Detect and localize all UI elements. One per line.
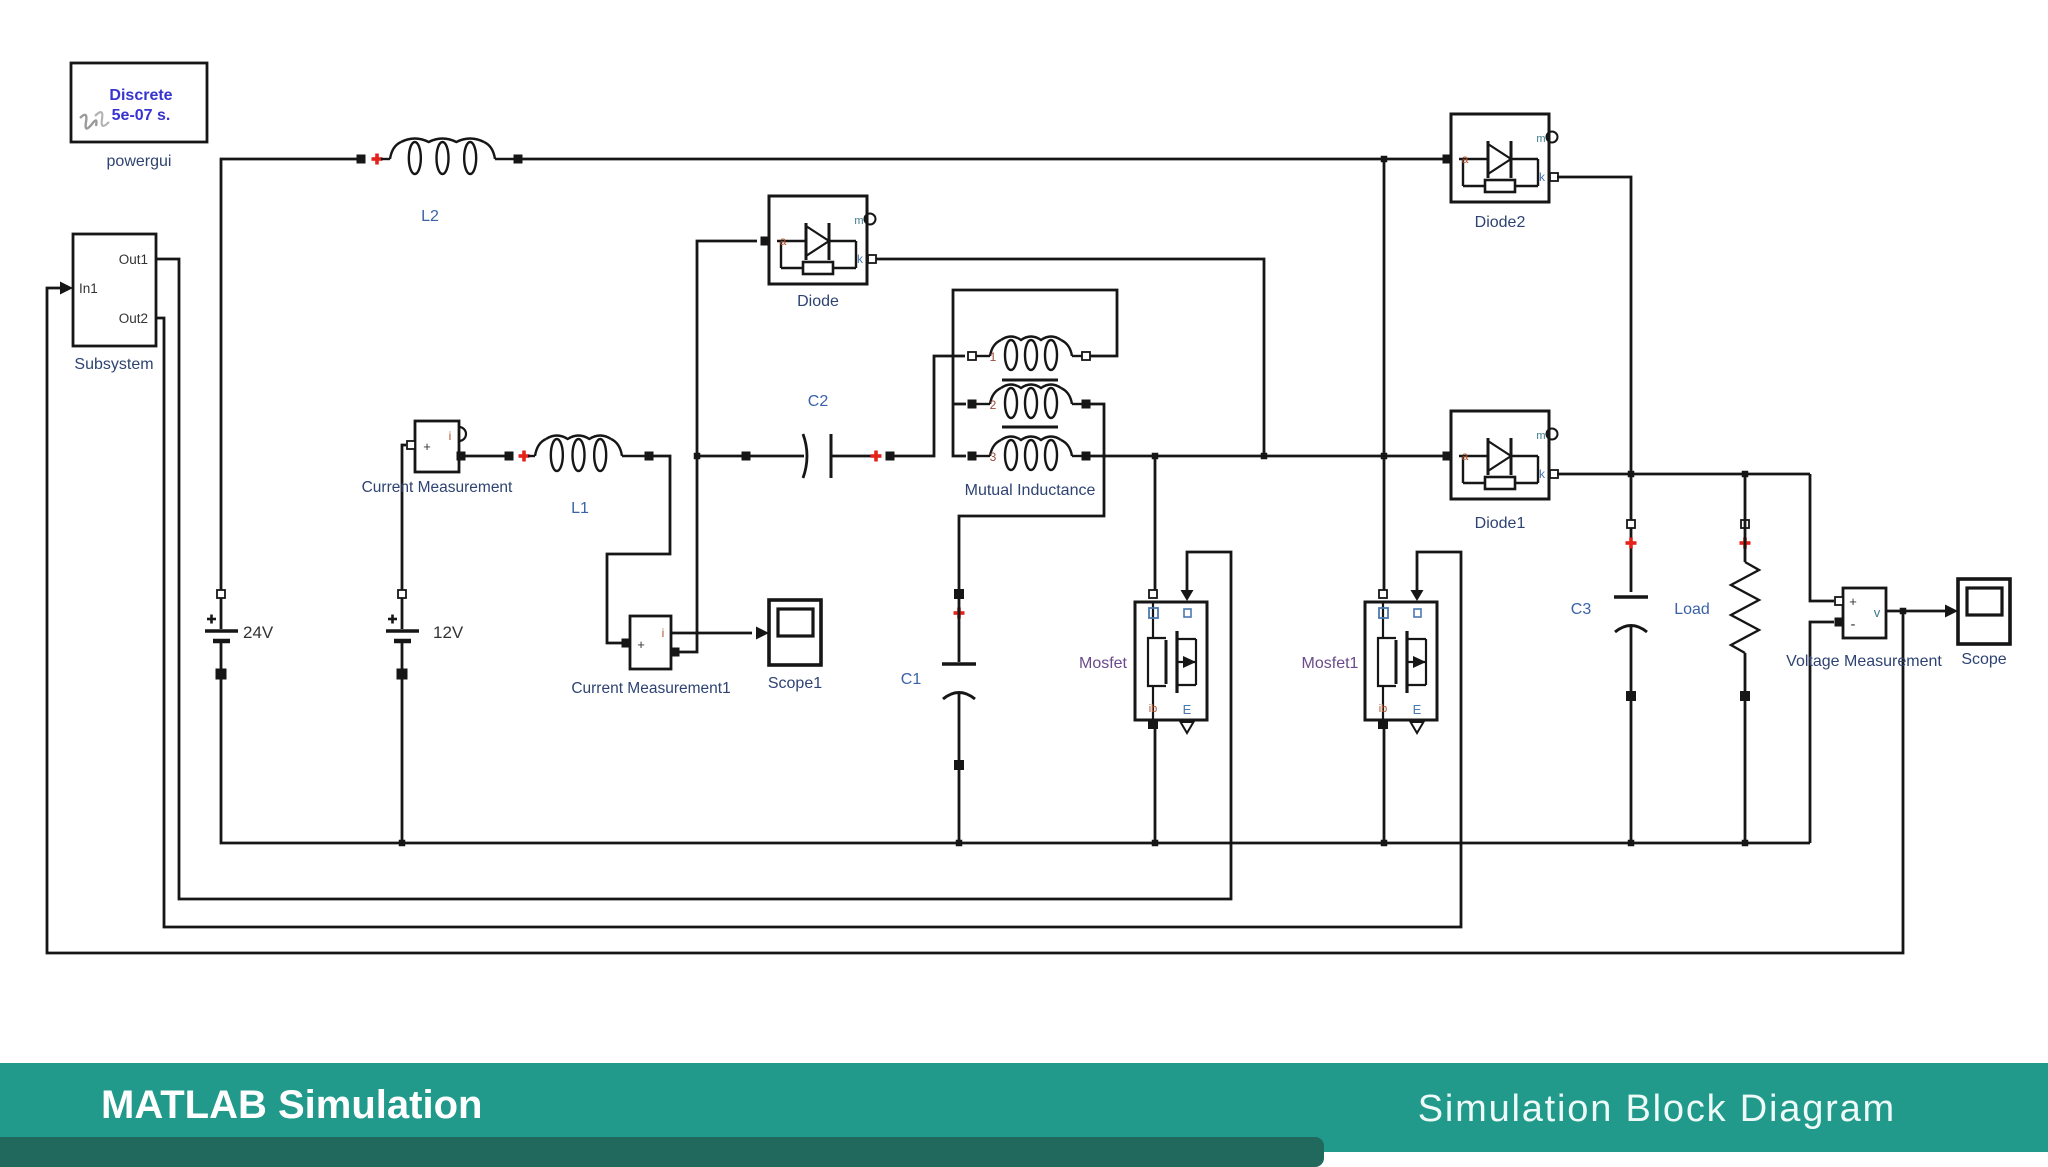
svg-text:Mosfet1: Mosfet1 — [1302, 655, 1359, 672]
wire C2 right — [831, 455, 871, 458]
L2 right terminal — [514, 155, 523, 164]
current measurement1 block — [622, 616, 680, 669]
L2 left terminal — [357, 155, 366, 164]
mutual inductance label — [965, 482, 1096, 499]
svg-text:a: a — [1462, 449, 1469, 463]
wire into C2 — [750, 455, 804, 458]
C2 red plus — [871, 451, 882, 462]
arrow into In1 — [60, 282, 73, 295]
capacitor C2 plates — [803, 434, 831, 478]
current measurement label — [362, 479, 513, 496]
scope block Scope — [1958, 579, 2010, 668]
svg-text:Diode1: Diode1 — [1475, 515, 1526, 532]
current measurement block — [407, 421, 466, 472]
12V port square — [398, 590, 406, 598]
junction top net / Mosfet1 drain — [1381, 156, 1388, 163]
svg-text:C3: C3 — [1571, 601, 1592, 618]
svg-text:24V: 24V — [243, 623, 274, 642]
svg-text:i: i — [449, 429, 452, 443]
svg-text:Voltage Measurement: Voltage Measurement — [1786, 653, 1942, 670]
svg-text:+: + — [1849, 594, 1857, 609]
Load port square — [1741, 520, 1749, 528]
wire winding2 left stub — [953, 403, 966, 406]
wire C2 left — [697, 455, 742, 458]
junction 12V/bus — [399, 840, 406, 847]
wire L1 to current measurement1 — [607, 456, 670, 643]
C1 label — [901, 671, 922, 688]
svg-text:L2: L2 — [421, 208, 439, 225]
powergui label — [107, 153, 172, 170]
junction C3/bus — [1628, 840, 1635, 847]
svg-text:1: 1 — [990, 350, 997, 364]
wire 12V to current measurement — [402, 445, 406, 590]
junction diode anode / C2 — [694, 453, 701, 460]
svg-text:Mosfet: Mosfet — [1079, 655, 1128, 672]
subsystem block — [73, 234, 156, 346]
svg-text:+: + — [423, 439, 431, 454]
svg-text:-: - — [1851, 616, 1856, 633]
L1 right terminal — [645, 452, 654, 461]
subsystem label — [74, 356, 153, 373]
Load wire marker — [1740, 691, 1750, 701]
wire CM output to L1 — [464, 455, 505, 458]
inductor L2 coil — [381, 139, 514, 175]
mutual inductance winding1 — [968, 337, 1090, 371]
svg-text:Scope1: Scope1 — [768, 675, 822, 692]
svg-text:k: k — [857, 252, 864, 266]
svg-text:Diode2: Diode2 — [1475, 214, 1526, 231]
diode block Diode1 — [1443, 411, 1559, 532]
C2 right port square — [886, 452, 895, 461]
mutual inductance core bar2 — [1002, 426, 1058, 429]
svg-text:3: 3 — [990, 450, 997, 464]
wire In1 feedback — [47, 288, 1903, 953]
arrow into Scope — [1945, 605, 1958, 618]
mutual inductance winding2 — [968, 385, 1091, 419]
L1 label — [571, 500, 589, 517]
mutual inductance winding3 — [968, 437, 1091, 471]
24V wire marker — [216, 669, 227, 680]
mosfet block Mosfet — [1135, 590, 1207, 733]
wire Diode k to center node — [876, 259, 1264, 456]
wire winding1 right loop to winding2/3 left — [953, 290, 1117, 456]
svg-text:E: E — [1183, 702, 1192, 717]
L2 red plus — [372, 154, 383, 165]
Load red plus — [1740, 538, 1751, 549]
C1 port square — [954, 589, 964, 599]
scope block Scope1 — [768, 600, 822, 692]
C1 red plus — [954, 608, 965, 619]
svg-text:In1: In1 — [79, 281, 98, 296]
svg-text:Mutual Inductance: Mutual Inductance — [965, 482, 1096, 499]
wire Out1 to Mosfet gate — [156, 259, 1231, 899]
L1 red plus — [519, 451, 530, 462]
svg-text:k: k — [1539, 467, 1546, 481]
junction Mosfet/bus — [1152, 840, 1159, 847]
svg-text:Load: Load — [1674, 601, 1710, 618]
12V wire marker — [397, 669, 408, 680]
wire Diode1 k output line — [1557, 473, 1810, 476]
arrow into Mosfet1 gate — [1411, 590, 1424, 601]
capacitor C3 plates — [1614, 597, 1648, 632]
C3 red plus — [1626, 538, 1637, 549]
arrow into Scope1 — [756, 627, 769, 640]
wire C1 to bus — [958, 693, 961, 843]
resistor Load zigzag — [1731, 474, 1759, 843]
junction VM output / feedback — [1900, 608, 1907, 615]
C2 left port square — [742, 452, 751, 461]
voltage measurement block — [1835, 588, 1887, 638]
wire top line to Mosfet1 drain — [1383, 159, 1386, 590]
C3 label — [1571, 601, 1592, 618]
right title — [1418, 1088, 1896, 1131]
svg-text:2: 2 — [990, 398, 997, 412]
wire Mosfet source to bus — [1154, 727, 1157, 843]
L2 label — [421, 208, 439, 225]
svg-text:powergui: powergui — [107, 153, 172, 170]
wire VM output to Scope — [1886, 610, 1945, 613]
bottom teal bar — [0, 1063, 2048, 1152]
wire VM minus to ground bus — [1810, 622, 1834, 843]
C3 wire marker — [1626, 691, 1636, 701]
wire Out2 to Mosfet1 gate — [156, 318, 1461, 927]
svg-text:5e-07 s.: 5e-07 s. — [112, 107, 171, 124]
Mosfet label — [1079, 655, 1128, 672]
wire center to Mosfet drain — [1154, 456, 1157, 590]
svg-text:Discrete: Discrete — [109, 87, 172, 104]
24V port square — [217, 590, 225, 598]
wire top net (L2 to Diode2) — [522, 158, 1443, 161]
svg-text:Out2: Out2 — [119, 311, 148, 326]
wire top net (24V+ to L2) — [221, 159, 357, 594]
svg-text:a: a — [780, 234, 787, 248]
wire Diode2 k to output node — [1557, 177, 1631, 592]
svg-text:C2: C2 — [808, 393, 829, 410]
battery 12V symbol — [386, 598, 419, 843]
junction output/C3 — [1628, 471, 1635, 478]
junction center/Mosfet drain — [1152, 453, 1159, 460]
diode block Diode — [761, 196, 877, 310]
L1 left terminal — [505, 452, 514, 461]
svg-text:Subsystem: Subsystem — [74, 356, 153, 373]
arrow into Mosfet gate — [1181, 590, 1194, 601]
mutual inductance core bar1 — [1002, 379, 1058, 382]
progress strip dark — [0, 1137, 1324, 1167]
junction center/Mosfet1 drain — [1381, 453, 1388, 460]
powergui block — [71, 63, 207, 142]
C1 wire marker — [954, 760, 964, 770]
junction output/Load — [1742, 471, 1749, 478]
left title — [101, 1083, 482, 1128]
svg-text:12V: 12V — [433, 623, 464, 642]
svg-text:Current Measurement1: Current Measurement1 — [571, 680, 730, 697]
Load label — [1674, 601, 1710, 618]
diode block Diode2 — [1443, 114, 1559, 231]
svg-text:+: + — [637, 637, 645, 652]
wire output node to VM plus — [1810, 474, 1834, 601]
inductor L1 coil — [528, 436, 645, 472]
current measurement1 label — [571, 680, 730, 697]
svg-text:L1: L1 — [571, 500, 589, 517]
svg-text:ib: ib — [1149, 703, 1158, 715]
Mosfet1 label — [1302, 655, 1359, 672]
svg-text:Current Measurement: Current Measurement — [362, 479, 513, 496]
svg-text:k: k — [1539, 170, 1546, 184]
mosfet block Mosfet1 — [1365, 590, 1437, 733]
wire CM1 output to Scope1 — [671, 632, 752, 635]
voltage measurement label — [1786, 653, 1942, 670]
C3 port square — [1627, 520, 1635, 528]
svg-text:i: i — [662, 626, 665, 640]
wire C3 to bus — [1630, 626, 1633, 843]
junction center/Diode k — [1261, 453, 1268, 460]
wire CM1 minus / diode anode net — [679, 241, 757, 652]
wire winding2 right to C1 — [959, 404, 1104, 590]
svg-text:E: E — [1413, 702, 1422, 717]
svg-text:Out1: Out1 — [119, 252, 148, 267]
svg-text:v: v — [1874, 605, 1881, 620]
junction Load/bus — [1742, 840, 1749, 847]
svg-text:Scope: Scope — [1961, 651, 2006, 668]
svg-text:m: m — [1536, 430, 1545, 442]
12V label — [433, 623, 464, 642]
battery 24V symbol — [205, 598, 238, 641]
svg-text:Diode: Diode — [797, 293, 839, 310]
svg-text:m: m — [854, 215, 863, 227]
capacitor C1 plates — [942, 664, 976, 699]
wire C1 top — [958, 599, 961, 662]
wire C2 to mutual port1 — [894, 356, 965, 456]
wire center node (winding3 to Diode1) — [1090, 455, 1443, 458]
junction C1/bus — [956, 840, 963, 847]
svg-text:C1: C1 — [901, 671, 922, 688]
24V label — [243, 623, 274, 642]
svg-text:ib: ib — [1379, 703, 1388, 715]
junction Mosfet1/bus — [1381, 840, 1388, 847]
C2 label — [808, 393, 829, 410]
svg-text:m: m — [1536, 133, 1545, 145]
wire Mosfet1 source to bus — [1383, 727, 1386, 843]
wire ground bus — [221, 643, 1810, 843]
svg-text:a: a — [1462, 152, 1469, 166]
